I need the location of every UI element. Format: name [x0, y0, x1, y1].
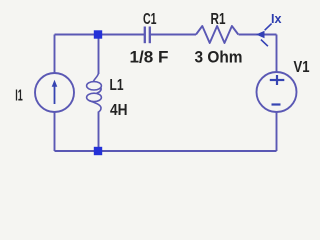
svg-text:V1: V1 [294, 59, 310, 76]
wire: inductor branch vertical top (junction to coil) [98, 35, 100, 75]
svg-text:3 Ohm: 3 Ohm [195, 48, 243, 67]
wire: resistor R1 to top-right corner [239, 34, 277, 36]
V1 plus sign [270, 75, 285, 85]
capacitor C1 plates [145, 27, 150, 44]
svg-text:R1: R1 [211, 11, 226, 28]
svg-text:Ix: Ix [271, 11, 282, 26]
svg-text:1/8 F: 1/8 F [130, 48, 169, 67]
svg-text:I1: I1 [15, 88, 23, 105]
svg-text:L1: L1 [110, 77, 124, 94]
voltage source V1 (circle) [257, 72, 297, 112]
resistor R1 zigzag [196, 26, 238, 43]
current source I1 (circle) [35, 73, 74, 112]
junction: top node (filled square) [94, 30, 102, 38]
svg-text:C1: C1 [143, 11, 157, 28]
current arrow Ix (arrowhead on top wire) [256, 24, 272, 47]
wire: inductor branch vertical bottom (coil to junction) [98, 112, 100, 152]
wire: right vertical (top corner to V1 top) [276, 35, 278, 73]
wire: top-left horizontal segment (node A to C1 left plate) [55, 34, 145, 36]
inductor L1 coil [87, 73, 102, 113]
wire: V1 bottom to bottom-right corner [276, 112, 278, 151]
V1 minus sign [272, 103, 281, 105]
wire: bottom horizontal [55, 150, 277, 152]
current source I1 internal arrow [52, 80, 58, 104]
svg-text:4H: 4H [110, 102, 128, 119]
junction: bottom node (filled square) [94, 147, 102, 155]
wire: capacitor C1 to resistor R1 [151, 34, 197, 36]
wire: left vertical (top corner down to I1 top) [54, 35, 56, 74]
wire: left vertical (I1 bottom down to bottom-left corner) [54, 112, 56, 151]
